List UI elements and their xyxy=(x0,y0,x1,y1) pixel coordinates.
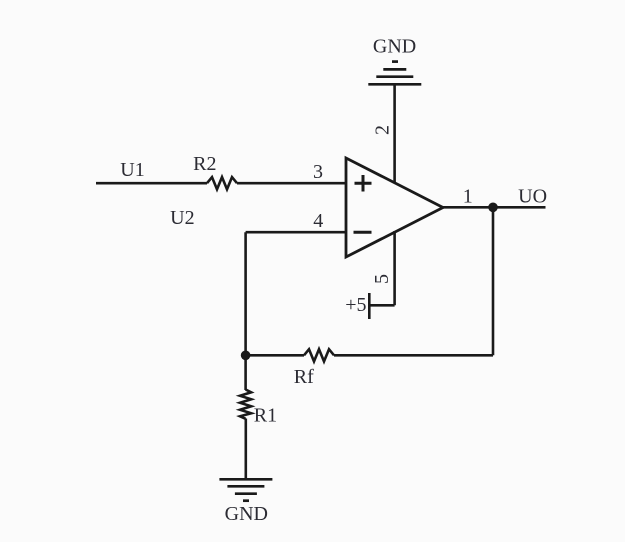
svg-text:3: 3 xyxy=(313,161,323,183)
ground symbol GND (top) xyxy=(368,62,421,85)
op-amp non-inverting (+) input marker xyxy=(355,175,372,192)
resistor R2 xyxy=(207,177,237,189)
wire: feedback horizontal (left of Rf) to junction xyxy=(246,354,304,357)
junction dot: output node xyxy=(488,203,498,213)
wire: U1 input to R2 xyxy=(96,182,207,185)
svg-text:5: 5 xyxy=(371,274,393,284)
wire: feedback horizontal (right of Rf) xyxy=(334,354,493,357)
wire: inverting net vertical down to junction and R1 xyxy=(244,232,247,390)
wire: pin 4 horizontal xyxy=(246,231,346,234)
svg-text:R2: R2 xyxy=(193,153,216,175)
wire: output feedback vertical xyxy=(492,207,495,355)
svg-text:1: 1 xyxy=(463,185,473,207)
resistor R1 xyxy=(240,390,251,419)
svg-text:2: 2 xyxy=(372,125,394,135)
wire: R1 to bottom ground xyxy=(245,419,248,480)
ground symbol GND (bottom) xyxy=(219,479,272,500)
op-amp inverting (-) input marker xyxy=(354,231,372,234)
wire: pin 5 vertical xyxy=(393,231,396,305)
svg-text:4: 4 xyxy=(313,210,323,232)
wire: R2 to op-amp pin 3 xyxy=(237,182,346,185)
svg-text:+5: +5 xyxy=(345,294,366,316)
svg-text:GND: GND xyxy=(225,503,268,525)
op-amp U1 (triangle body) xyxy=(346,158,443,257)
svg-text:Rf: Rf xyxy=(294,366,314,388)
svg-text:UO: UO xyxy=(518,185,547,207)
svg-text:U1: U1 xyxy=(120,159,144,181)
wire: pin 2 vertical to top ground xyxy=(393,84,396,182)
svg-text:GND: GND xyxy=(373,36,416,58)
wire: op-amp output to UO xyxy=(443,206,546,209)
svg-text:U2: U2 xyxy=(170,207,194,229)
junction dot: inverting node xyxy=(241,351,251,361)
resistor Rf xyxy=(304,349,334,361)
wire: +5 supply horizontal xyxy=(369,304,394,307)
+5 terminal bar xyxy=(368,293,371,319)
svg-text:R1: R1 xyxy=(254,405,277,427)
